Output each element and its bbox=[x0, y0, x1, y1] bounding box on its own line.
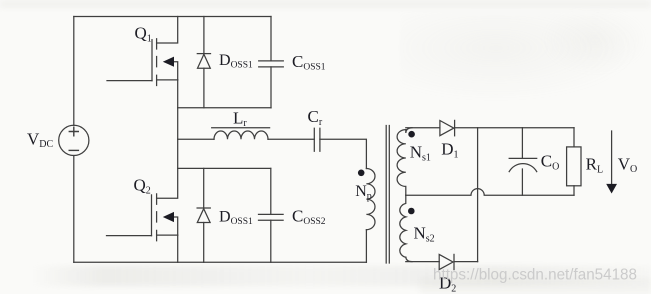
wire mid rail to Lr bbox=[178, 138, 214, 140]
svg-text:VO: VO bbox=[618, 154, 638, 175]
svg-text:Np: Np bbox=[355, 183, 372, 202]
wire D2 to riser bbox=[454, 261, 478, 263]
transistor Q2 bbox=[107, 139, 178, 240]
winding Np primary bbox=[366, 169, 375, 263]
transformer core bbox=[386, 126, 389, 264]
wire center tap with hop bbox=[406, 189, 574, 196]
wire Ns1 top to D1 bbox=[406, 127, 440, 129]
winding Ns2 bbox=[400, 195, 412, 261]
capacitor COSS2 bbox=[259, 168, 284, 262]
wire snubber box1 bottom rail bbox=[178, 107, 271, 109]
svg-text:CO: CO bbox=[541, 152, 560, 173]
diode D2 bbox=[439, 254, 454, 269]
wire riser D2 to top rail bbox=[477, 128, 479, 262]
node dot Ns2 bbox=[408, 208, 415, 215]
node dot Ns1 bbox=[408, 131, 415, 138]
wire Ns2 bottom to D2 bbox=[406, 261, 439, 263]
winding Ns1 bbox=[397, 128, 412, 196]
svg-text:Ns2: Ns2 bbox=[414, 224, 435, 245]
wire bottom rail bbox=[74, 261, 367, 263]
inductor Lr bbox=[212, 128, 270, 140]
wire Q2 source to bottom rail bbox=[177, 235, 179, 262]
capacitor COSS1 bbox=[259, 17, 284, 108]
svg-text:Cr: Cr bbox=[308, 107, 323, 128]
svg-text:D1: D1 bbox=[441, 140, 458, 161]
source VDC bbox=[59, 125, 89, 155]
wire Lr to Cr bbox=[268, 138, 314, 140]
svg-text:Ns1: Ns1 bbox=[410, 143, 431, 164]
svg-text:COSS1: COSS1 bbox=[292, 52, 326, 73]
diode D1 bbox=[440, 120, 455, 135]
diode DOSS1 upper bbox=[197, 17, 210, 108]
svg-text:DOSS1: DOSS1 bbox=[219, 209, 253, 227]
wire D1 to output top rail bbox=[455, 127, 574, 129]
resistor RL bbox=[567, 128, 581, 196]
capacitor CO bbox=[509, 128, 537, 196]
capacitor Cr bbox=[314, 128, 320, 151]
diode DOSS1 lower bbox=[197, 168, 210, 262]
wire left vertical lower (Vdc bottom) bbox=[73, 156, 75, 263]
wire top rail bbox=[74, 16, 271, 18]
svg-text:https://blog.csdn.net/fan54188: https://blog.csdn.net/fan54188 bbox=[433, 267, 637, 284]
wire snubber box2 top rail bbox=[178, 167, 271, 169]
svg-text:DOSS1: DOSS1 bbox=[219, 52, 253, 70]
wire Q1 source to mid node bbox=[177, 80, 179, 139]
wire Cr to transformer primary bbox=[320, 139, 367, 168]
node dot Np bbox=[358, 170, 365, 177]
transistor Q1 bbox=[107, 17, 178, 86]
svg-text:Lr: Lr bbox=[233, 108, 247, 129]
svg-text:Q1: Q1 bbox=[135, 24, 152, 45]
svg-text:Q2: Q2 bbox=[134, 176, 151, 197]
svg-text:VDC: VDC bbox=[27, 130, 54, 151]
wire left vertical upper (Vdc top) bbox=[73, 17, 75, 126]
arrow VO bbox=[606, 131, 617, 194]
svg-text:COSS2: COSS2 bbox=[292, 207, 326, 228]
svg-text:RL: RL bbox=[586, 155, 603, 176]
